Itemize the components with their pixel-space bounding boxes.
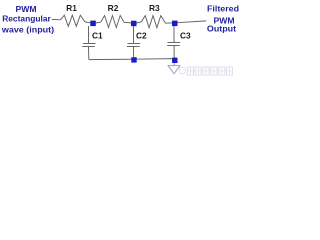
svg-text:C2: C2 <box>136 31 147 41</box>
svg-text:R2: R2 <box>108 3 119 13</box>
resistor R2 <box>101 16 124 28</box>
svg-text:R3: R3 <box>149 3 160 13</box>
wire: C2 down to ground rail <box>133 47 135 58</box>
svg-text:C3: C3 <box>180 31 191 41</box>
wire: input lead <box>52 18 61 20</box>
node label: Filtered PWM Output <box>207 3 239 33</box>
capacitor C2 <box>127 44 140 47</box>
node B (junction R2/R3/C2) <box>131 21 137 27</box>
node C (junction R3/C3/output) <box>172 21 178 27</box>
capacitor C1 <box>82 44 95 47</box>
node label: PWM Rectangular wave (input) <box>1 4 54 34</box>
wire: R2 to node B <box>124 21 131 24</box>
capacitor C3 <box>167 43 180 46</box>
wire: R3 to node C <box>166 22 172 24</box>
svg-text:R1: R1 <box>66 3 77 13</box>
svg-text:Filtered: Filtered <box>207 3 239 13</box>
svg-text:Rectangular: Rectangular <box>2 13 51 23</box>
wire: ground rail <box>89 59 175 60</box>
node D (C2 to ground rail junction) <box>131 57 136 62</box>
node E (C3 to ground rail junction) <box>172 58 177 63</box>
wire: node B down to C2 <box>133 26 135 43</box>
wire: C3 down to ground rail <box>173 46 175 58</box>
ground <box>168 66 180 74</box>
wire: node E down to ground <box>173 63 175 65</box>
wire: node A to R2 <box>96 21 101 24</box>
svg-text:C1: C1 <box>92 31 103 41</box>
wire: R1 to node A <box>85 21 90 24</box>
wire: node A down to C1 <box>88 26 90 43</box>
wire: output lead <box>178 21 207 23</box>
wire: node C down to C3 <box>173 26 175 42</box>
svg-text:wave (input): wave (input) <box>1 24 54 34</box>
resistor R3 <box>141 16 165 28</box>
wire: C1 down to ground rail <box>88 47 90 60</box>
watermark <box>179 67 232 75</box>
resistor R1 <box>61 15 85 26</box>
node A (junction R1/R2/C1) <box>90 21 96 27</box>
svg-text:Output: Output <box>207 24 236 34</box>
wire: node B to R3 <box>137 22 142 23</box>
